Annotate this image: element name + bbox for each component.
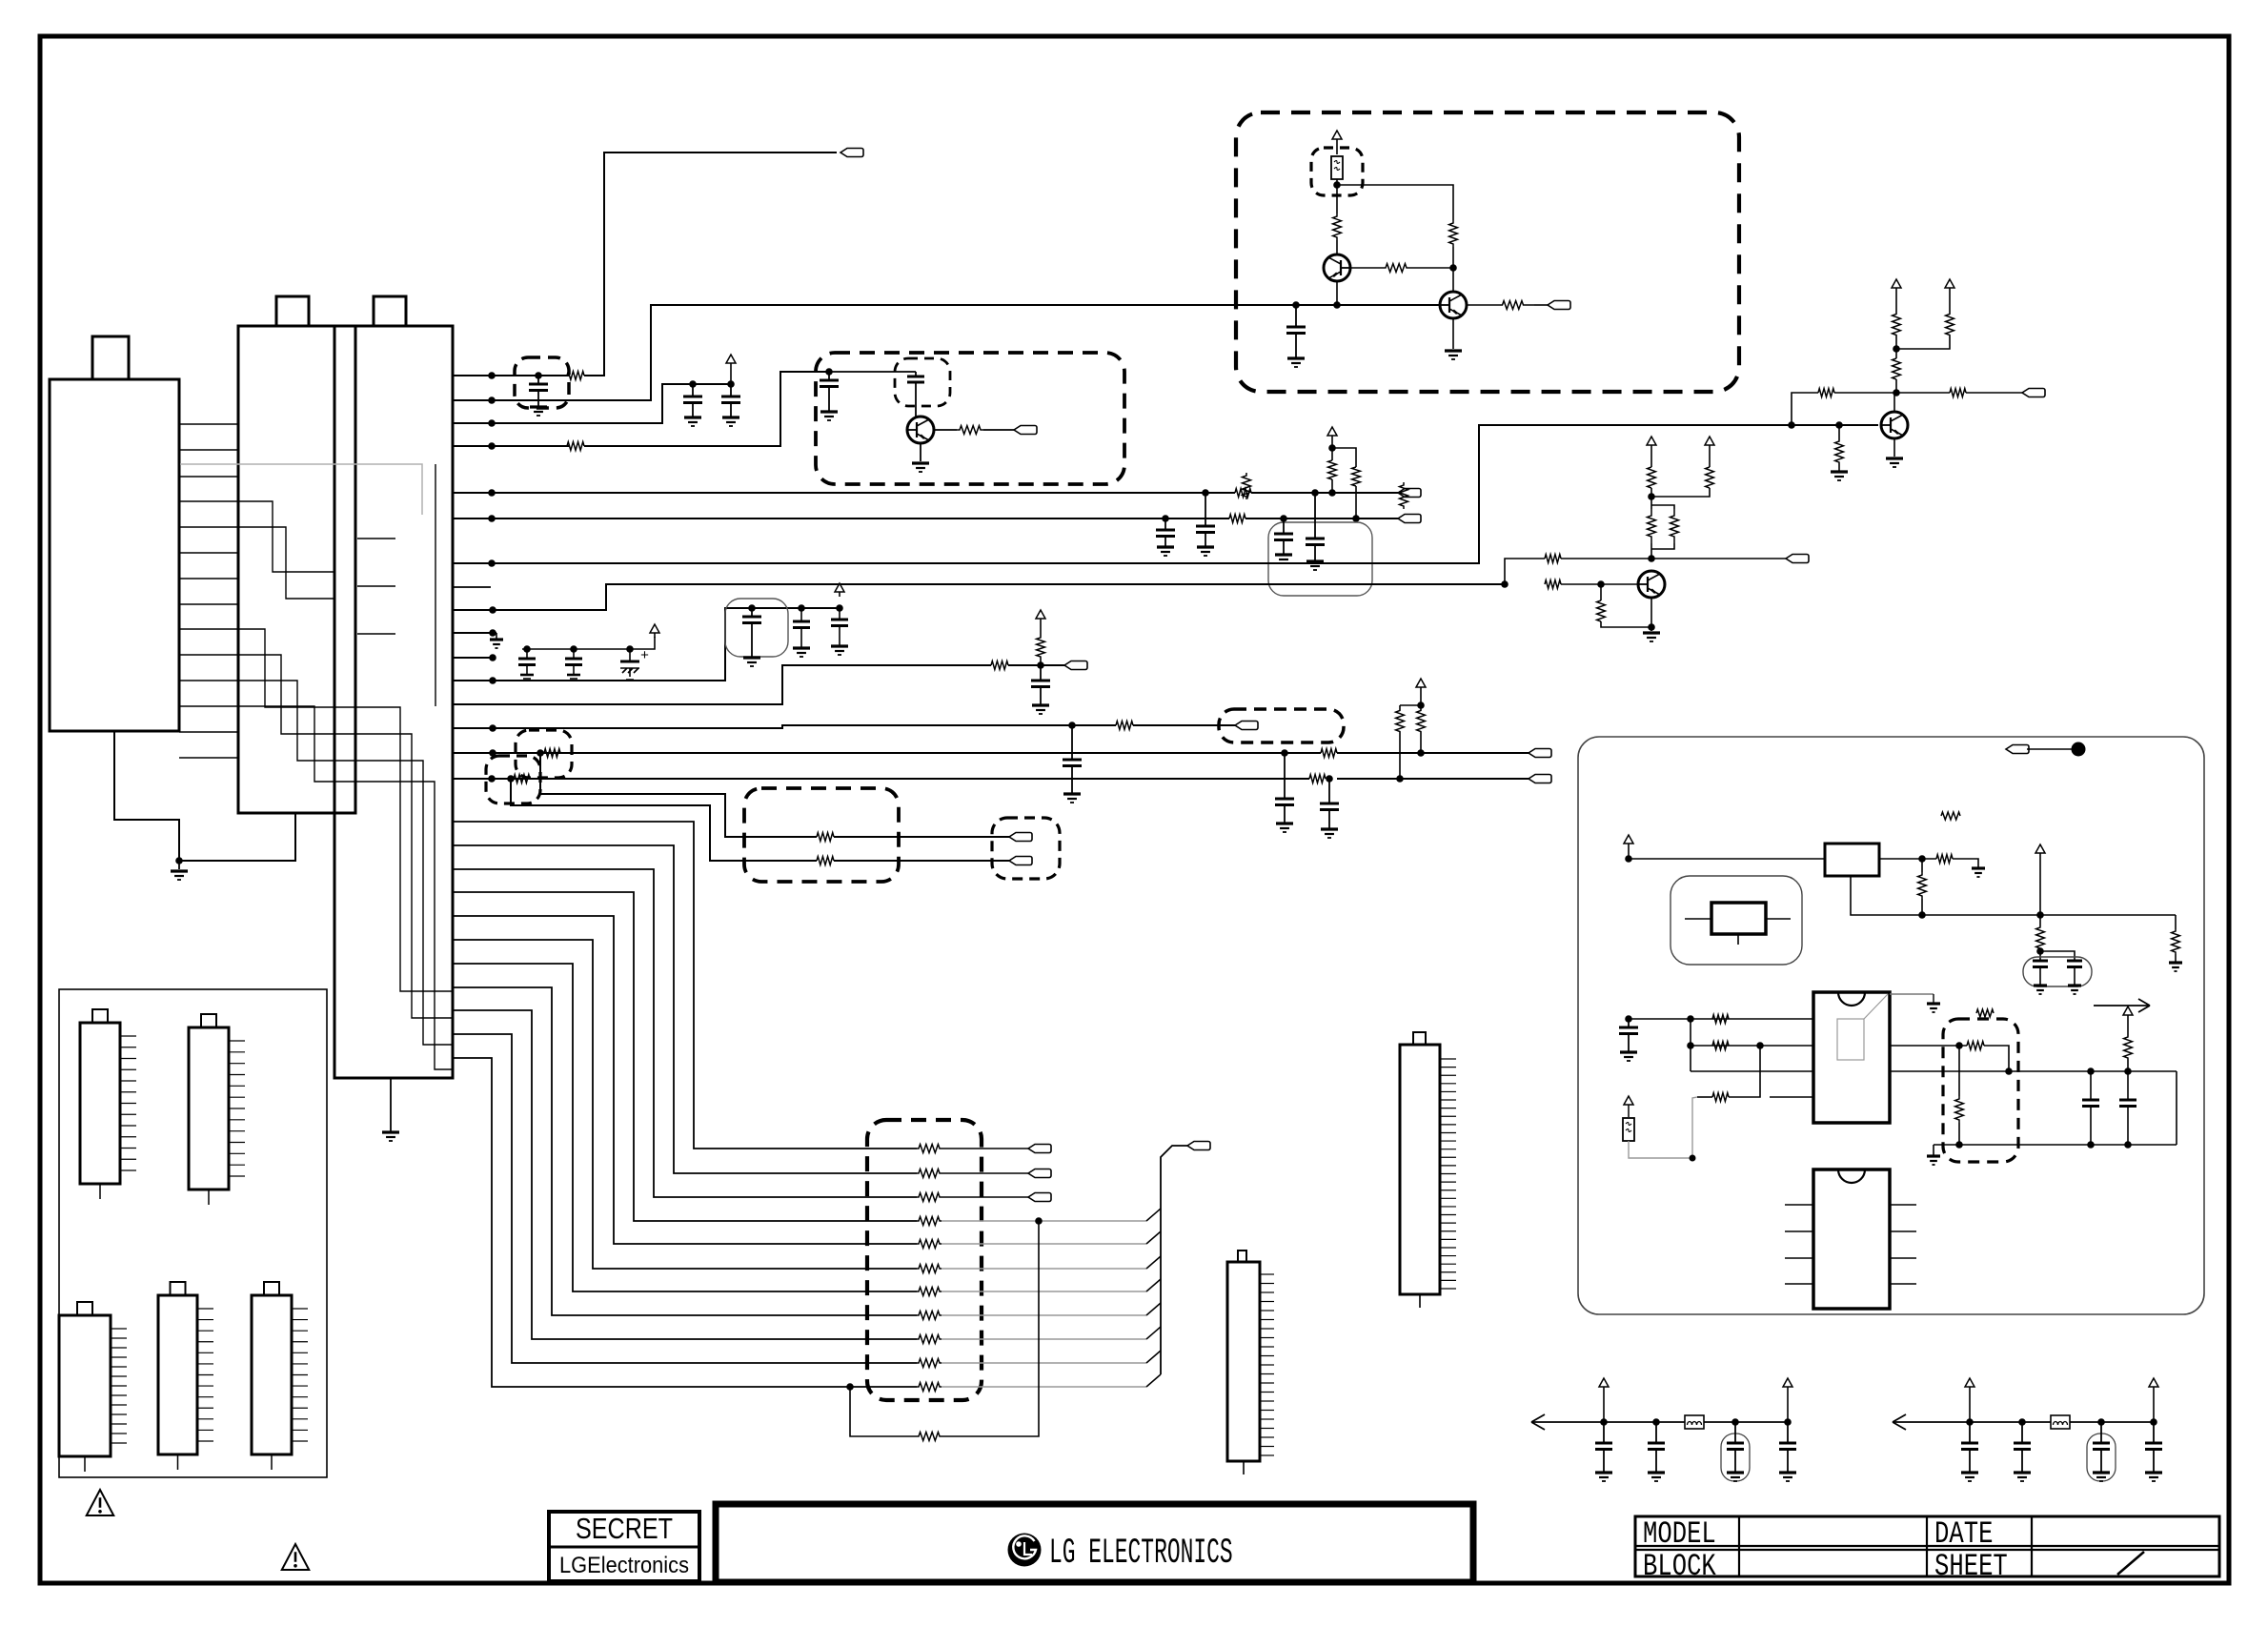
node W13 junction bbox=[489, 677, 496, 684]
ferrite bead FB bbox=[1685, 1415, 1704, 1429]
wire R16 to terminal bbox=[834, 836, 1009, 838]
node pullup2 junction bbox=[1417, 701, 1425, 709]
wire reg input bbox=[1629, 858, 1825, 860]
resistor R21 bbox=[1491, 301, 1534, 310]
wire bus out 8 bbox=[942, 1314, 1146, 1316]
wire internal step route 2 bbox=[238, 527, 334, 599]
capacitor CF3 bbox=[1734, 1422, 1736, 1443]
node W15 junction bbox=[489, 724, 496, 732]
resistor R27 bbox=[1648, 467, 1656, 488]
ground bbox=[382, 1130, 399, 1133]
node W17 branch junction bbox=[507, 775, 515, 783]
capacitor C14 bbox=[798, 604, 805, 612]
capacitor C16 bbox=[1040, 665, 1042, 681]
resistor RN10 bbox=[917, 1359, 942, 1368]
capacitor C15 bbox=[836, 604, 843, 612]
wire bus diagonal 4 bbox=[1146, 1209, 1161, 1221]
node pin1 junction bbox=[1687, 1015, 1694, 1023]
resistor R11 bbox=[1321, 749, 1337, 758]
resistor R18 bbox=[1333, 213, 1342, 240]
terminal W16 bbox=[1529, 749, 1551, 758]
node W6 cap junction bbox=[1162, 515, 1169, 522]
transistor Q1 bbox=[1324, 254, 1350, 281]
node W16 cap junction bbox=[1281, 749, 1288, 757]
shield block B (connector outline) bbox=[334, 326, 453, 1078]
capacitor C1 bbox=[535, 372, 542, 379]
wire W17 branch to R17 bbox=[511, 779, 817, 861]
node filter j4 bbox=[1784, 1418, 1792, 1426]
wire pin bus vertical bbox=[1690, 1019, 1691, 1071]
node S2 junction bbox=[2005, 1067, 2013, 1075]
wire Q3 collector riser bbox=[1792, 393, 1818, 425]
resistor R14 bbox=[1396, 710, 1405, 732]
wire W5 bbox=[453, 492, 1235, 494]
resistor R49 bbox=[1037, 637, 1045, 658]
wire W16 to terminal bbox=[1337, 752, 1529, 754]
wire U3 right pin3 long bbox=[1890, 1070, 2177, 1072]
resistor R15 bbox=[1417, 710, 1426, 732]
resistor R24 bbox=[1545, 555, 1561, 563]
power arrow VCC8 bbox=[1709, 443, 1711, 445]
resistor R33 bbox=[1950, 389, 1966, 397]
wire W1 net VIDEO1 bbox=[453, 375, 569, 376]
node reg out junction bbox=[1918, 855, 1926, 863]
node W6-R junction bbox=[1280, 515, 1287, 522]
resistor R1 bbox=[567, 372, 584, 380]
shield block A (connector outline) bbox=[238, 326, 355, 813]
terminal W6 bbox=[1398, 515, 1421, 523]
IC IC5 bbox=[158, 1295, 197, 1454]
transistor Q5 bbox=[907, 417, 934, 443]
terminal bus top bbox=[1187, 1142, 1210, 1150]
resistor RN3 bbox=[917, 1193, 942, 1202]
sheet slash bbox=[2117, 1552, 2144, 1575]
wire bus out 4 bbox=[942, 1220, 1146, 1222]
node R27 join junction bbox=[1648, 493, 1655, 500]
node rail junctions bbox=[1955, 1141, 1963, 1149]
resistor RN8 bbox=[917, 1311, 942, 1320]
wire U4 left pin 3 bbox=[1785, 1257, 1813, 1259]
resistor R3 bbox=[957, 426, 983, 435]
dashed block T2 bbox=[744, 788, 899, 882]
wire bus diagonal 5 bbox=[1146, 1231, 1161, 1244]
oval cap can bbox=[1721, 1433, 1750, 1481]
fusible resistor RF2 bbox=[1623, 1118, 1634, 1141]
capacitor CF2 bbox=[1655, 1422, 1657, 1443]
dashed option box T4 bbox=[992, 818, 1060, 879]
node U1-gnd junction bbox=[175, 857, 183, 864]
resistor R38 bbox=[1936, 855, 1953, 864]
node filter j4 bbox=[2150, 1418, 2157, 1426]
resistor R28 bbox=[1706, 467, 1714, 488]
terminal T2b bbox=[1009, 857, 1032, 865]
warning triangle 2 bbox=[282, 1544, 310, 1570]
capacitor C3 bbox=[727, 380, 735, 388]
capacitor C17 bbox=[1071, 725, 1073, 760]
node W16 branch junction bbox=[537, 749, 544, 757]
wire bus collector vertical bbox=[1161, 1146, 1187, 1374]
wire ground rail bbox=[1934, 1144, 2135, 1146]
wire reg bottom rail bbox=[1851, 876, 2176, 915]
power arrow VF1 bbox=[1969, 1385, 1971, 1387]
wire filter rail bbox=[1604, 1421, 1685, 1423]
resistor R13 bbox=[1309, 775, 1326, 783]
IC IC2 bbox=[80, 1023, 120, 1184]
node W12 junction bbox=[489, 654, 496, 661]
node W5 junction bbox=[488, 489, 496, 497]
connector CN-M bbox=[1400, 1045, 1440, 1294]
wire W12 stub bbox=[453, 657, 496, 659]
resistor R9 bbox=[1116, 722, 1133, 730]
power arrow VCC11 bbox=[1628, 842, 1630, 844]
wire W2 inside box bbox=[1296, 304, 1440, 306]
resistor R46 bbox=[1967, 1042, 1984, 1050]
wire U3 pin3 bbox=[1691, 1070, 1813, 1072]
resistor R4 bbox=[1235, 489, 1251, 498]
resistor R34 bbox=[1893, 314, 1901, 335]
ground bbox=[912, 461, 929, 464]
resistor R36 bbox=[1893, 358, 1901, 379]
wire bus line 3 bbox=[453, 869, 917, 1197]
power arrow VCC4 bbox=[839, 591, 840, 597]
resistor R45 small bbox=[1976, 1009, 1994, 1017]
IC U3 inner window bbox=[1837, 1019, 1864, 1060]
wire U4 left pin 1 bbox=[1785, 1204, 1813, 1206]
wire U3 pin4 bbox=[1770, 1096, 1813, 1098]
terminal W15 bbox=[1235, 722, 1258, 730]
IC U4 with notch bbox=[1838, 1169, 1865, 1183]
node Q4 emitter junction bbox=[1648, 623, 1655, 631]
wire R44 riser bbox=[1729, 1046, 1760, 1097]
wire pullup branch bbox=[1332, 448, 1356, 467]
power arrow VF2 bbox=[2153, 1385, 2155, 1387]
dashed block S bbox=[1943, 1019, 2018, 1162]
block shield box right bbox=[1578, 737, 2204, 1314]
resistor R7 bbox=[1352, 467, 1361, 486]
dashed block resistor pack bbox=[867, 1120, 982, 1400]
capacitor CF2 bbox=[2021, 1422, 2023, 1443]
wire filter rail 2 bbox=[1704, 1421, 1788, 1423]
wire W8 to transistor Q3 bbox=[453, 425, 1878, 563]
node W5-R junction bbox=[1311, 489, 1319, 497]
capacitor CF1 bbox=[1603, 1422, 1605, 1443]
IC IC4 bbox=[59, 1315, 111, 1456]
power arrow VCC10 bbox=[1949, 286, 1951, 288]
resistor R48 bbox=[2124, 1036, 2133, 1059]
node W16 pullup junction bbox=[1417, 749, 1425, 757]
node big dot bbox=[2072, 742, 2086, 757]
wire bus out 9 bbox=[942, 1338, 1146, 1340]
dashed option box around C5 bbox=[895, 358, 950, 406]
dashed option box around C1 bbox=[515, 357, 569, 408]
terminal bus 1 bbox=[1028, 1145, 1051, 1153]
resistor R17 bbox=[817, 857, 834, 865]
wire W2 long top net bbox=[453, 305, 1296, 400]
wire U4 right pin 3 bbox=[1890, 1257, 1916, 1259]
wire W14 bbox=[453, 665, 991, 704]
svg-text:SHEET: SHEET bbox=[1934, 1549, 2008, 1583]
arrow out right bbox=[2094, 1005, 2150, 1006]
resistor R8 bbox=[991, 661, 1008, 670]
wire W11 stub with ground bbox=[453, 632, 496, 634]
node filter j2 bbox=[2018, 1418, 2026, 1426]
wire W17 bbox=[453, 778, 1309, 780]
block shield box bottom-left bbox=[59, 989, 327, 1477]
wire bus diagonal 7 bbox=[1146, 1279, 1161, 1291]
resistor R30 parallel bbox=[1651, 505, 1674, 509]
resistor R25 bbox=[1545, 580, 1561, 589]
dashed block tuner AGC bbox=[1236, 112, 1739, 392]
wire W6 bbox=[453, 518, 1229, 519]
wire W13 to decoupling cluster bbox=[453, 608, 840, 681]
node filter j1 bbox=[1966, 1418, 1974, 1426]
wire bus line 1 bbox=[453, 822, 917, 1149]
wire R26 to emitter bbox=[1601, 621, 1651, 627]
capacitor CF4 bbox=[2153, 1422, 2155, 1443]
ground bbox=[1445, 349, 1462, 352]
terminal Q5 out bbox=[1014, 426, 1037, 435]
wire R17 to terminal bbox=[834, 860, 1009, 862]
node W3 junction bbox=[488, 419, 496, 427]
node W10 junction at 1579 bbox=[1501, 580, 1509, 588]
node W17 pullup junction bbox=[1396, 775, 1404, 783]
wire bus line 10 bbox=[453, 1034, 917, 1363]
wire U3 top gray bbox=[1890, 993, 1934, 995]
node Q1 emitter junction bbox=[1333, 301, 1341, 309]
wire bus diagonal 6 bbox=[1146, 1256, 1161, 1269]
capacitor C10 bbox=[523, 645, 531, 653]
wire filter rail bbox=[1970, 1421, 2051, 1423]
terminal Q2 out bbox=[1548, 301, 1570, 310]
wire bus out 6 bbox=[942, 1268, 1146, 1270]
wire U4 left pin 4 bbox=[1785, 1283, 1813, 1285]
node feedback junction bbox=[846, 1383, 854, 1391]
wire reg out bbox=[1879, 858, 1936, 860]
wire Q5 out bbox=[983, 429, 1014, 431]
rounded box crystal X1 bbox=[1671, 876, 1802, 965]
node cap jx 1 bbox=[2087, 1067, 2095, 1075]
wire bus out 11 bbox=[942, 1386, 1146, 1388]
node W1 junction bbox=[488, 372, 496, 379]
node W6 pullup junction bbox=[1352, 515, 1360, 522]
ground bbox=[1933, 1145, 1934, 1155]
capacitor CF3 bbox=[2100, 1422, 2102, 1443]
wire U3 pin2 bbox=[1691, 1045, 1813, 1047]
node Q4 collector junction bbox=[1648, 555, 1655, 562]
IC IC6 bbox=[252, 1295, 292, 1454]
ground bbox=[178, 861, 180, 869]
ground bbox=[1886, 457, 1903, 459]
wire internal vertical bus bbox=[435, 464, 436, 706]
node W15 cap junction bbox=[1068, 722, 1076, 729]
terminal Q4 out bbox=[1786, 555, 1809, 563]
wire bus line 11 bbox=[453, 1058, 917, 1387]
node W6 junction bbox=[488, 515, 496, 522]
capacitor C11 bbox=[570, 645, 577, 653]
resistor RN11 bbox=[917, 1383, 942, 1392]
wire bus line 8 bbox=[453, 987, 917, 1315]
resistor R32 base bias bbox=[1838, 425, 1840, 440]
terminal bus 2 bbox=[1028, 1169, 1051, 1178]
power arrow VCC15 bbox=[1040, 617, 1042, 619]
wire to C5 bbox=[829, 371, 916, 373]
resistor R41 bbox=[2036, 926, 2045, 949]
fusible resistor RF1 bbox=[1331, 156, 1343, 179]
resistor R23 loose bbox=[1400, 482, 1408, 509]
capacitor CF1 bbox=[1969, 1422, 1971, 1443]
resistor R50 small bbox=[1941, 812, 1960, 820]
wire W5 to terminal bbox=[1251, 492, 1398, 494]
resistor RN1 bbox=[917, 1145, 942, 1153]
resistor R2 bbox=[567, 442, 584, 451]
power arrow VCC3 bbox=[654, 632, 656, 638]
power arrow VF1 bbox=[1603, 1385, 1605, 1387]
resistor RN4 bbox=[917, 1217, 942, 1226]
crystal X1 bbox=[1711, 903, 1766, 934]
ground bbox=[1831, 470, 1848, 473]
wire internal stub c bbox=[357, 633, 395, 635]
dashed block audio buffer bbox=[816, 353, 1124, 484]
wire RF1 to R19 bbox=[1337, 185, 1453, 220]
capacitor C4 bbox=[828, 372, 830, 380]
resistor R26 base bias bbox=[1600, 584, 1602, 600]
wire bus line 9 bbox=[453, 1010, 917, 1339]
wire W9 stub bbox=[453, 586, 491, 588]
wire bus diagonal 8 bbox=[1146, 1303, 1161, 1315]
connector CN-S bbox=[1227, 1262, 1260, 1461]
capacitor C8 bbox=[1283, 518, 1285, 534]
wire probe to node bbox=[2027, 748, 2072, 750]
resistor R37 bbox=[917, 1433, 942, 1441]
warning triangle 1 bbox=[87, 1490, 114, 1515]
wire Q1 emitter down bbox=[1336, 281, 1338, 305]
node rail junction 2 bbox=[2036, 911, 2044, 919]
ground bbox=[496, 633, 497, 640]
wire bus out 1 bbox=[942, 1148, 1028, 1149]
dashed option box flat bbox=[1219, 709, 1344, 742]
resistor R10 bbox=[544, 749, 560, 758]
wire bus line 5 bbox=[453, 916, 917, 1244]
wire internal step route 6 bbox=[238, 706, 453, 1069]
wire R46 corner bbox=[1984, 1046, 2009, 1071]
node W10 junction bbox=[489, 606, 496, 614]
capacitor C6 bbox=[1205, 493, 1206, 526]
svg-text:LG ELECTRONICS: LG ELECTRONICS bbox=[1049, 1534, 1233, 1574]
IC IC3 bbox=[189, 1027, 229, 1189]
node W2 box junction bbox=[1292, 301, 1300, 309]
terminal W1 bbox=[840, 149, 863, 157]
node reg input junction bbox=[1625, 855, 1632, 863]
svg-text:DATE: DATE bbox=[1934, 1516, 1993, 1551]
capacitor C25 bbox=[2127, 1071, 2129, 1100]
wire filter rail 2 bbox=[2070, 1421, 2154, 1423]
transistor Q2 bbox=[1440, 292, 1467, 318]
node rail junction 1 bbox=[1918, 911, 1926, 919]
resistor RN2 bbox=[917, 1169, 942, 1178]
wire W4 transistor feed bbox=[453, 445, 569, 447]
node xtal junction bbox=[2036, 947, 2044, 955]
wire W16 branch to R16 bbox=[540, 753, 817, 837]
svg-text:LGElectronics: LGElectronics bbox=[559, 1553, 689, 1578]
power arrow VCC5 bbox=[1420, 685, 1422, 687]
wire W10b upper bbox=[1505, 559, 1545, 584]
IC U1 (left block) bbox=[50, 379, 179, 731]
capacitor C23 bbox=[1628, 1019, 1630, 1027]
SECRET box bbox=[549, 1512, 699, 1581]
arrow net left bbox=[1531, 1421, 1604, 1423]
wire internal stub b bbox=[357, 585, 395, 587]
node W17 cap junction bbox=[1326, 775, 1333, 783]
arrow net left bbox=[1893, 1421, 1970, 1423]
node W8 junction bbox=[488, 559, 496, 567]
terminal Q3 out bbox=[2022, 389, 2045, 397]
wire bus out 3 bbox=[942, 1196, 1028, 1198]
terminal bus 3 bbox=[1028, 1193, 1051, 1202]
resistor R5 bbox=[1229, 515, 1245, 523]
wire W15 to terminal bbox=[1133, 724, 1235, 726]
wire bus out 7 bbox=[942, 1291, 1146, 1292]
capacitor C12 electrolytic bbox=[626, 645, 634, 653]
node W17 junction bbox=[488, 775, 496, 783]
wire R35 join bbox=[1896, 335, 1950, 349]
dashed option box around RF1 bbox=[1311, 148, 1363, 195]
resistor R6 bbox=[1328, 460, 1337, 479]
wire W3 to cap pair bbox=[453, 384, 734, 423]
node gray junction bbox=[1690, 1155, 1696, 1162]
ground bbox=[1933, 994, 1934, 1003]
resistor R42 bbox=[1712, 1015, 1729, 1024]
node Q1-Q2 junction bbox=[1449, 264, 1457, 272]
wire R18 to Q1 bbox=[1336, 240, 1338, 254]
wire rail to caps bbox=[2135, 1144, 2177, 1146]
resistor R35 bbox=[1946, 314, 1954, 335]
rounded box caps group 1 bbox=[1268, 522, 1372, 596]
resistor R12 bbox=[514, 775, 530, 783]
node S junction bbox=[1955, 1042, 1963, 1049]
wire bus line 7 bbox=[453, 964, 917, 1291]
resistor R16 bbox=[817, 833, 834, 842]
capacitor C18 bbox=[1284, 753, 1286, 799]
resistor R31 bbox=[1818, 389, 1834, 397]
wire bus out 10 bbox=[942, 1362, 1146, 1364]
node W16 junction bbox=[489, 749, 496, 757]
node filter j1 bbox=[1600, 1418, 1608, 1426]
wire to terminal Q4 bbox=[1651, 558, 1786, 559]
resistor RN5 bbox=[917, 1240, 942, 1249]
resistor R19 bbox=[1449, 220, 1458, 247]
wire feedback loop bbox=[850, 1387, 917, 1436]
capacitor CF4 bbox=[1787, 1422, 1789, 1443]
wire Q2 out bbox=[1534, 304, 1548, 306]
power arrow VCC2 bbox=[1331, 434, 1333, 436]
wire R31 to node bbox=[1834, 392, 1950, 394]
capacitor C13 bbox=[748, 604, 756, 612]
node W4 junction bbox=[488, 442, 496, 450]
node R34 junction bbox=[1895, 335, 1897, 358]
wire to Q2 collector bbox=[1452, 268, 1454, 292]
resistor R47 bbox=[1958, 1046, 1960, 1096]
wire internal stub a bbox=[357, 538, 395, 539]
terminal W5 bbox=[1398, 489, 1421, 498]
resistor R43 bbox=[1712, 1042, 1729, 1050]
terminal T2a bbox=[1009, 833, 1032, 842]
wire W17 to terminal bbox=[1337, 778, 1529, 780]
wire bus out 5 bbox=[942, 1243, 1146, 1245]
node W5 cap junction bbox=[1202, 489, 1209, 497]
wire internal gray route bbox=[180, 464, 422, 515]
ground bbox=[1972, 866, 1985, 869]
wire W15 bbox=[453, 725, 1116, 728]
